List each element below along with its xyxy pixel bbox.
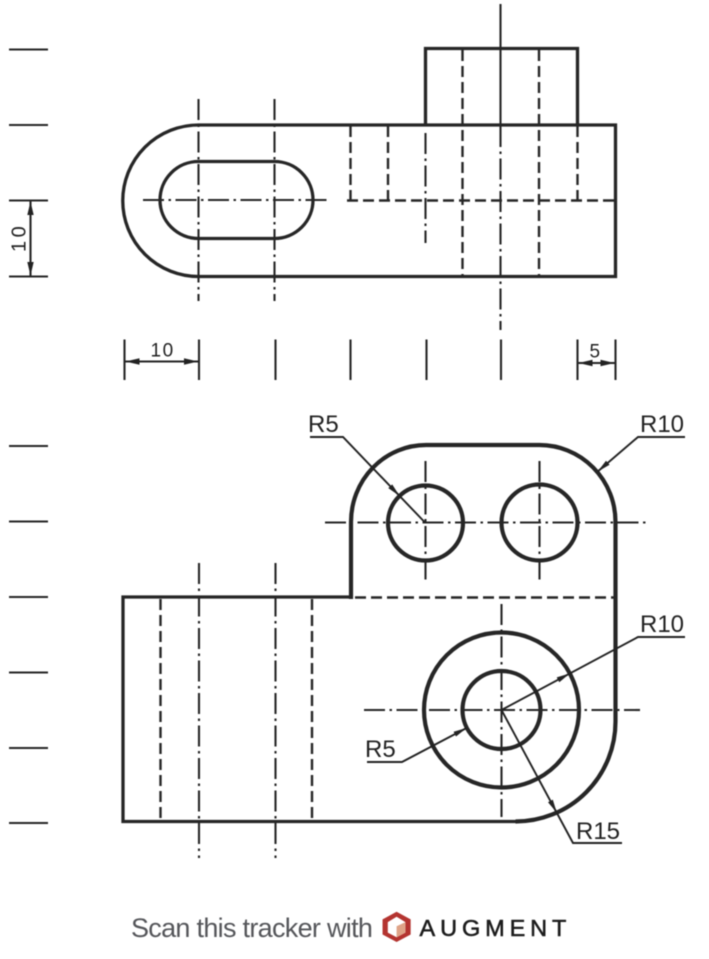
svg-text:10: 10 [9, 223, 31, 252]
svg-text:R15: R15 [576, 818, 620, 845]
svg-text:R10: R10 [640, 411, 684, 438]
svg-text:Scan this tracker with: Scan this tracker with [131, 913, 372, 943]
svg-text:R5: R5 [365, 736, 396, 763]
svg-text:R5: R5 [308, 411, 339, 438]
svg-text:5: 5 [590, 342, 601, 363]
svg-text:R10: R10 [640, 611, 684, 638]
svg-text:AUGMENT: AUGMENT [420, 915, 572, 941]
svg-text:10: 10 [151, 341, 175, 362]
